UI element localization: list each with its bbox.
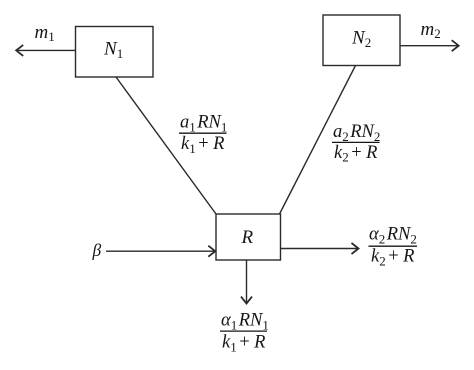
svg-text:m2: m2 <box>421 19 441 41</box>
label alpha1RN1/(k1+R) <box>220 311 269 355</box>
arrow R out right <box>281 243 359 254</box>
wire N2 to R <box>280 66 356 215</box>
label a1RN1/(k1+R) <box>179 113 227 156</box>
svg-text:m1: m1 <box>35 22 55 44</box>
svg-text:α1RN1: α1RN1 <box>221 311 269 333</box>
label a2RN2/(k2+R) <box>332 122 380 165</box>
svg-text:R: R <box>241 227 254 248</box>
arrow m2 <box>400 40 459 51</box>
svg-text:k1+R: k1+R <box>181 134 224 156</box>
svg-text:N2: N2 <box>351 28 371 51</box>
label alpha2RN2/(k2+R) <box>369 225 418 269</box>
svg-text:k1+R: k1+R <box>222 333 265 355</box>
svg-text:k2+R: k2+R <box>371 247 414 269</box>
arrow R out down <box>241 260 252 304</box>
box R <box>216 214 281 260</box>
svg-text:β: β <box>92 240 102 260</box>
box N2 <box>323 15 400 66</box>
arrow beta to R <box>106 246 215 257</box>
wire N1 to R <box>116 77 216 214</box>
svg-text:k2+R: k2+R <box>334 143 377 165</box>
arrow m1 <box>16 45 75 56</box>
svg-text:a1RN1: a1RN1 <box>180 113 227 135</box>
svg-text:α2RN2: α2RN2 <box>369 225 417 247</box>
svg-text:N1: N1 <box>103 39 123 62</box>
svg-text:a2RN2: a2RN2 <box>333 122 380 144</box>
box N1 <box>76 27 154 78</box>
